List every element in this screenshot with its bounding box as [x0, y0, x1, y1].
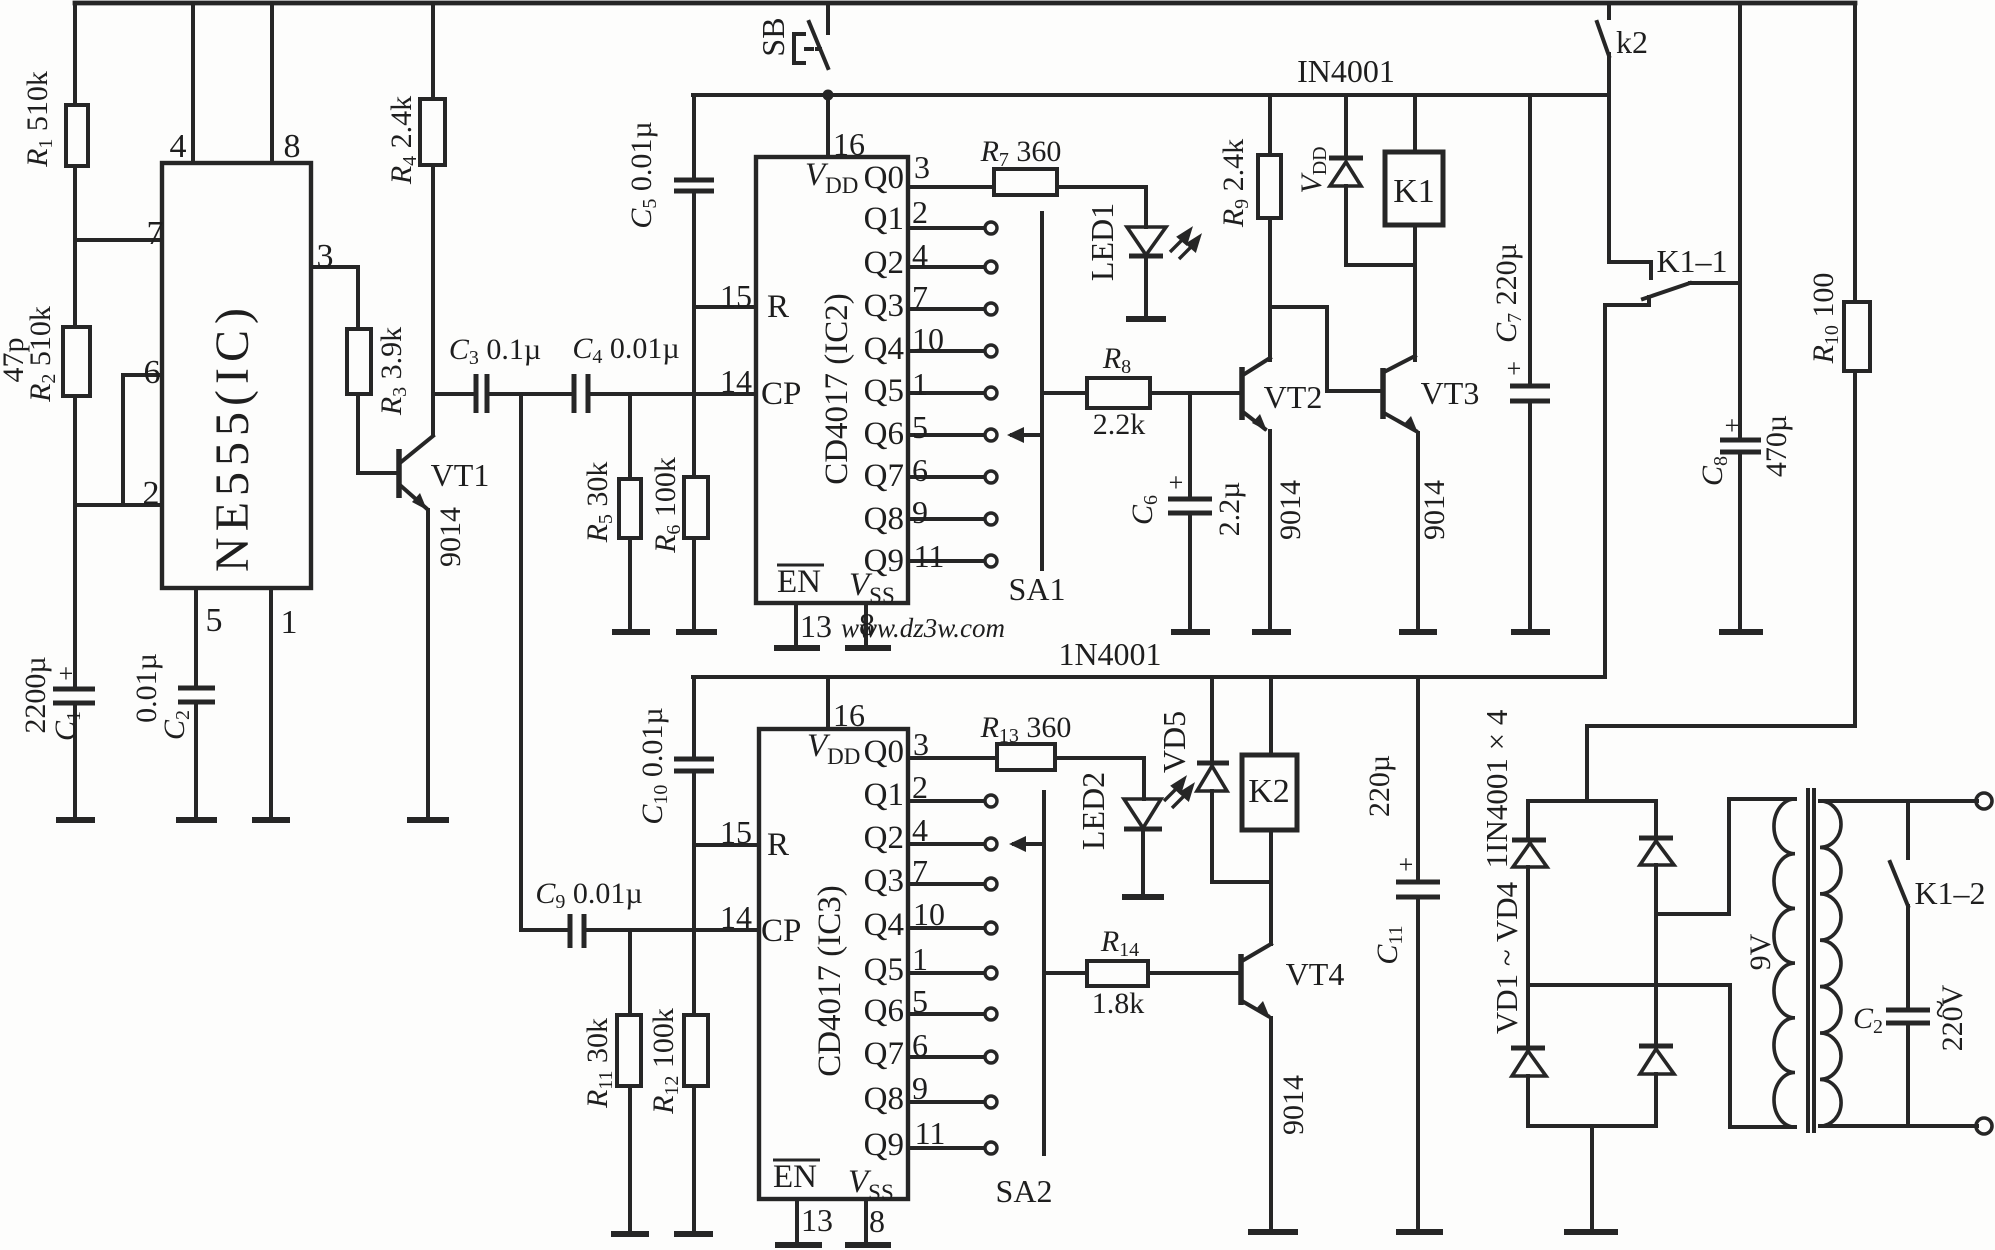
svg-text:4: 4: [170, 128, 187, 165]
svg-text:R14: R14: [1100, 925, 1139, 961]
svg-text:VD5: VD5: [1156, 711, 1192, 773]
svg-text:9014: 9014: [1274, 480, 1307, 540]
svg-text:VDD: VDD: [805, 157, 858, 198]
svg-text:R2 510k: R2 510k: [24, 306, 60, 403]
svg-text:Q2: Q2: [864, 820, 904, 856]
svg-text:SA2: SA2: [996, 1173, 1053, 1209]
svg-text:LED1: LED1: [1084, 203, 1120, 281]
svg-text:Q9: Q9: [864, 1127, 904, 1163]
svg-text:Q5: Q5: [864, 952, 904, 988]
svg-text:VDD: VDD: [1295, 146, 1331, 193]
svg-text:EN: EN: [773, 1159, 817, 1195]
svg-text:5: 5: [912, 983, 928, 1019]
svg-text:2.2k: 2.2k: [1093, 408, 1146, 441]
svg-text:VT2: VT2: [1264, 379, 1323, 415]
svg-text:C6: C6: [1126, 495, 1162, 525]
svg-text:R9 2.4k: R9 2.4k: [1217, 139, 1253, 228]
svg-text:R11 30k: R11 30k: [581, 1018, 617, 1109]
svg-text:6: 6: [912, 1027, 928, 1063]
svg-text:VT4: VT4: [1286, 956, 1345, 992]
svg-text:1N4001: 1N4001: [1058, 636, 1161, 672]
svg-text:2: 2: [143, 475, 160, 512]
svg-text:15: 15: [720, 278, 752, 314]
svg-text:LED2: LED2: [1075, 772, 1111, 850]
svg-text:R13 360: R13 360: [980, 711, 1072, 747]
svg-text:1: 1: [281, 604, 298, 641]
svg-text:SB: SB: [755, 17, 791, 56]
svg-text:8: 8: [869, 1203, 885, 1239]
svg-text:C1: C1: [49, 711, 85, 741]
svg-text:C2: C2: [1853, 1002, 1883, 1038]
svg-text:Q8: Q8: [864, 1081, 904, 1117]
svg-text:4: 4: [912, 237, 928, 273]
svg-text:Q3: Q3: [864, 288, 904, 324]
svg-text:K1: K1: [1393, 173, 1435, 210]
svg-text:3: 3: [913, 726, 929, 762]
svg-text:K2: K2: [1248, 773, 1290, 810]
svg-text:14: 14: [720, 363, 752, 399]
svg-text:15: 15: [720, 814, 752, 850]
svg-text:13: 13: [801, 1202, 833, 1238]
svg-text:Q7: Q7: [864, 458, 904, 494]
svg-text:Q0: Q0: [864, 734, 904, 770]
svg-text:Q7: Q7: [864, 1036, 904, 1072]
svg-text:K1–2: K1–2: [1914, 875, 1985, 911]
svg-text:CD4017 (IC3): CD4017 (IC3): [812, 885, 848, 1077]
svg-text:EN: EN: [777, 564, 821, 600]
svg-text:Q4: Q4: [864, 907, 904, 943]
svg-text:7: 7: [912, 853, 928, 889]
svg-text:R3 3.9k: R3 3.9k: [375, 327, 411, 416]
svg-text:SA1: SA1: [1009, 571, 1066, 607]
svg-text:+: +: [1169, 468, 1184, 497]
svg-text:470µ: 470µ: [1760, 415, 1793, 477]
svg-text:IN4001: IN4001: [1297, 53, 1395, 89]
svg-text:7: 7: [912, 279, 928, 315]
svg-text:Q4: Q4: [864, 331, 904, 367]
svg-text:Q6: Q6: [864, 416, 904, 452]
svg-text:1IN4001 × 4: 1IN4001 × 4: [1479, 709, 1514, 868]
svg-text:Q5: Q5: [864, 373, 904, 409]
svg-text:1: 1: [912, 941, 928, 977]
svg-text:R7 360: R7 360: [980, 135, 1062, 171]
svg-text:13: 13: [800, 608, 832, 644]
svg-text:C3 0.1µ: C3 0.1µ: [449, 333, 541, 369]
svg-text:Q6: Q6: [864, 993, 904, 1029]
svg-text:~: ~: [1922, 1000, 1959, 1018]
svg-text:C9 0.01µ: C9 0.01µ: [535, 877, 642, 913]
svg-text:9014: 9014: [434, 507, 467, 567]
svg-text:C11: C11: [1371, 925, 1407, 964]
svg-text:9014: 9014: [1418, 480, 1451, 540]
svg-text:K1–1: K1–1: [1656, 243, 1727, 279]
svg-text:Q1: Q1: [864, 201, 904, 237]
svg-text:7: 7: [147, 215, 164, 252]
svg-text:C4 0.01µ: C4 0.01µ: [572, 332, 679, 368]
svg-text:R4 2.4k: R4 2.4k: [385, 96, 421, 185]
svg-text:C2: C2: [158, 710, 194, 740]
svg-text:2: 2: [912, 769, 928, 805]
svg-text:Q1: Q1: [864, 777, 904, 813]
svg-text:6: 6: [912, 452, 928, 488]
svg-text:3: 3: [317, 238, 334, 275]
svg-text:R: R: [767, 827, 789, 863]
svg-text:+: +: [1725, 411, 1740, 440]
svg-text:4: 4: [912, 812, 928, 848]
svg-text:9: 9: [912, 494, 928, 530]
svg-text:2200µ: 2200µ: [19, 656, 52, 733]
svg-text:2: 2: [912, 194, 928, 230]
svg-text:2.2µ: 2.2µ: [1213, 482, 1246, 537]
svg-text:9V: 9V: [1744, 933, 1777, 970]
svg-text:3: 3: [914, 149, 930, 185]
svg-text:5: 5: [206, 602, 223, 639]
svg-text:10: 10: [913, 896, 945, 932]
svg-text:VT3: VT3: [1421, 375, 1480, 411]
svg-text:14: 14: [720, 899, 752, 935]
svg-text:C10 0.01µ: C10 0.01µ: [636, 707, 672, 824]
svg-text:R10 100: R10 100: [1807, 273, 1843, 365]
svg-text:16: 16: [833, 126, 865, 162]
svg-text:Q8: Q8: [864, 501, 904, 537]
svg-text:9014: 9014: [1277, 1075, 1310, 1135]
svg-text:C8: C8: [1696, 456, 1732, 486]
svg-text:CP: CP: [761, 376, 801, 412]
svg-text:8: 8: [284, 128, 301, 165]
svg-text:5: 5: [912, 409, 928, 445]
svg-text:+: +: [59, 659, 74, 688]
svg-text:CD4017 (IC2): CD4017 (IC2): [819, 293, 855, 485]
svg-text:R8: R8: [1102, 342, 1131, 378]
svg-text:k2: k2: [1616, 24, 1648, 60]
svg-text:R1 510k: R1 510k: [21, 71, 57, 168]
svg-text:VSS: VSS: [848, 1164, 894, 1205]
svg-text:R6 100k: R6 100k: [649, 457, 685, 554]
svg-text:1: 1: [912, 366, 928, 402]
svg-text:VD1 ~ VD4: VD1 ~ VD4: [1489, 881, 1524, 1034]
svg-text:C7 220µ: C7 220µ: [1490, 243, 1526, 343]
svg-text:1.8k: 1.8k: [1092, 987, 1145, 1020]
svg-text:Q2: Q2: [864, 245, 904, 281]
svg-text:R: R: [767, 289, 789, 325]
svg-text:0.01µ: 0.01µ: [130, 653, 163, 723]
svg-text:11: 11: [914, 538, 945, 574]
svg-text:R5 30k: R5 30k: [581, 462, 617, 544]
svg-text:10: 10: [912, 321, 944, 357]
svg-text:8: 8: [859, 606, 875, 642]
svg-text:VDD: VDD: [807, 728, 860, 769]
svg-text:Q0: Q0: [864, 160, 904, 196]
svg-text:11: 11: [915, 1115, 946, 1151]
svg-text:+: +: [1399, 850, 1414, 879]
svg-text:NE555(IC): NE555(IC): [206, 302, 259, 572]
svg-text:9: 9: [912, 1070, 928, 1106]
svg-text:C5 0.01µ: C5 0.01µ: [625, 121, 661, 228]
svg-text:VT1: VT1: [431, 457, 490, 493]
svg-text:Q3: Q3: [864, 863, 904, 899]
svg-text:Q9: Q9: [864, 543, 904, 579]
svg-text:220µ: 220µ: [1363, 755, 1396, 817]
svg-text:+: +: [1507, 354, 1522, 383]
svg-text:6: 6: [144, 354, 161, 391]
svg-text:CP: CP: [761, 913, 801, 949]
svg-text:R12 100k: R12 100k: [647, 1008, 683, 1115]
svg-text:16: 16: [833, 697, 865, 733]
